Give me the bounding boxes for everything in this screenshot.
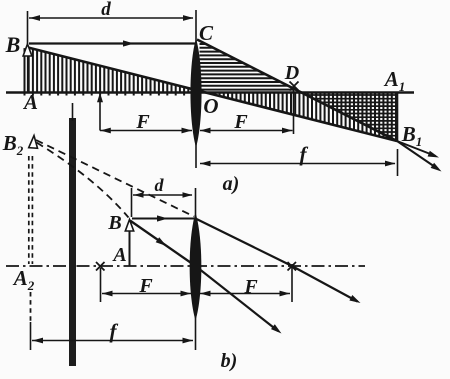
mid arrowhead on central ray (156, 237, 167, 246)
image triangle O-A1-B1 vertical hatching (below axis) (207, 93, 396, 141)
refracted ray from lens through right focus (b) (196, 219, 358, 302)
dimension d (b) (131, 188, 133, 217)
dimension d (top of diagram a) (27, 11, 29, 44)
svg-text:B: B (5, 32, 21, 57)
dimension F (right of lens a) (200, 130, 293, 132)
svg-text:b): b) (221, 350, 238, 372)
tick at right focus D (293, 87, 295, 134)
svg-text:C: C (199, 21, 214, 45)
central ray extension past B1 with arrowhead (397, 141, 436, 156)
lens a (converging lens profile, filled) (190, 39, 201, 148)
ray from B parallel to axis, towards lens point C (29, 42, 195, 44)
thin stem above screen (72, 103, 74, 121)
image vertical edge A1-B1 (397, 93, 399, 142)
refracted ray extension past B1 with arrowhead (397, 141, 438, 169)
x-mark right focus (b) (288, 262, 297, 271)
svg-text:F: F (138, 275, 153, 297)
dimension f (b) (32, 340, 193, 342)
refracted ray C-D-B1 (197, 40, 397, 142)
tick below right focus for F dim (291, 264, 293, 302)
object vertical edge BA (27, 48, 29, 93)
svg-text:F: F (243, 276, 258, 298)
svg-text:O: O (203, 94, 218, 118)
object hatched triangle ABO (vertical hatching) (25, 48, 193, 95)
central ray B through O (b) (130, 221, 196, 267)
opaque screen (thick bar) (69, 118, 76, 366)
tick at A2 for f dim (30, 322, 32, 350)
virtual image A2-B2 (double dashed vertical) (28, 156, 30, 264)
svg-text:D: D (284, 62, 299, 84)
dimension f (a): lens to image B1 (200, 163, 395, 165)
central ray beyond lens with arrowhead (b) (196, 266, 279, 331)
svg-text:B: B (107, 212, 121, 234)
dashed drop line below A2 (30, 292, 32, 324)
svg-text:F: F (135, 111, 150, 133)
optical axis of diagram a (6, 91, 414, 93)
ray from B parallel to axis to lens (b) (132, 218, 194, 220)
virtual image arrowhead at B2 (open) (29, 136, 38, 149)
svg-text:A: A (22, 90, 38, 114)
object arrowhead at B (open) (23, 44, 32, 56)
lens a axis line / dimension ticks through lens (195, 10, 197, 168)
svg-text:d: d (101, 0, 111, 20)
svg-text:d: d (155, 175, 165, 195)
svg-text:a): a) (223, 173, 240, 195)
object arrow AB (b) (129, 231, 131, 266)
left focus marker of a: upward arrow at F (99, 98, 101, 131)
lens b (converging lens profile, filled) (190, 213, 202, 321)
dimension F left (b) (102, 293, 191, 295)
central ray B-O-B1 (object hypotenuse through lens centre) (28, 48, 397, 142)
dense horizontal overlay making cross-hatch in region D-A1-B1 (306, 95, 397, 139)
svg-text:F: F (233, 111, 248, 133)
x-mark left focus (b) (96, 262, 105, 271)
dashed back-extension B2 to B (of central ray) (37, 143, 129, 218)
dimension F (left of lens a) (100, 130, 192, 132)
tick at image plane for f (397, 149, 399, 176)
dimension F right (b) (200, 293, 290, 295)
dashed back-extension B2 to lens (of refracted ray) (36, 140, 194, 217)
mid arrowhead on parallel ray (123, 40, 134, 46)
lens b centre line / dimension ticks (195, 188, 197, 350)
tick below left focus for F dim (100, 268, 102, 302)
image-side horizontal hatching (triangle C-O-axis) (200, 44, 296, 90)
x-mark at focus point D (290, 82, 299, 91)
optical axis of diagram b (dash-dot) (6, 265, 365, 267)
svg-text:A: A (111, 244, 126, 266)
